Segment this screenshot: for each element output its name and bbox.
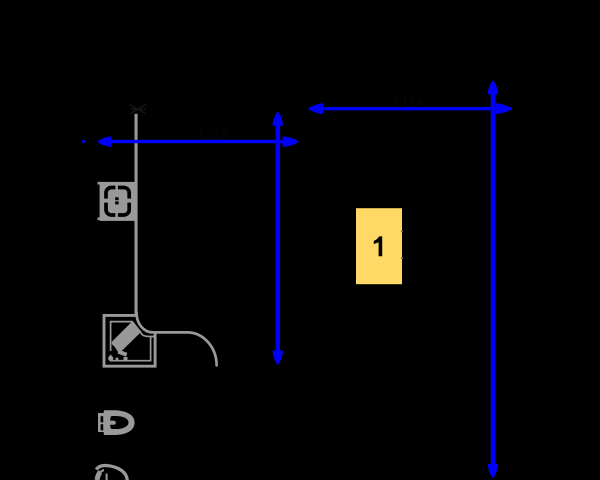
wall [135,114,138,315]
svg-text:1,219: 1,219 [197,128,227,142]
shower door curved wall [137,313,217,365]
room marker 1 [356,208,402,284]
toilet [98,410,135,435]
dimension arrow horizontal left [97,136,298,147]
faint dark marks at wall top [130,104,147,114]
svg-text:2,134: 2,134 [392,96,422,110]
shower tray [111,322,155,361]
dimension arrow vertical left [272,112,283,365]
dimension arrow horizontal right [309,103,512,114]
shower faucet fittings [108,341,127,361]
bidet (partially visible) [96,465,127,480]
shower door panel [112,321,141,353]
dimension arrow vertical right [488,80,499,478]
glass block window [98,182,135,221]
shower enclosure outer square [104,315,155,366]
selection handle specks on marker edge [401,231,403,233]
dimension point dot [82,140,85,143]
